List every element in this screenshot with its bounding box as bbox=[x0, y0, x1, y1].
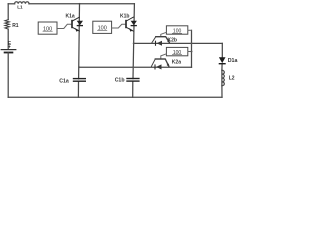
battery E plate short bbox=[5, 52, 13, 54]
junction node cross C1b bbox=[132, 66, 134, 68]
wire K1a column upper bbox=[78, 4, 81, 79]
diode D1a bbox=[219, 57, 226, 63]
svg-text:D1a: D1a bbox=[228, 58, 238, 64]
svg-text:R1: R1 bbox=[12, 23, 19, 29]
wire right edge column bbox=[221, 43, 223, 57]
wire top rail right segment bbox=[29, 3, 134, 5]
transistor K2a bbox=[151, 59, 169, 67]
svg-text:K1a: K1a bbox=[66, 14, 75, 20]
resistor box 100 (K1b base) bbox=[93, 21, 126, 33]
wire K1a column lower bbox=[77, 81, 79, 97]
resistor box 100 (K2a base) bbox=[161, 47, 192, 58]
resistor box 100 (K2b base) bbox=[161, 26, 192, 37]
diode of K1b on rail bbox=[131, 21, 137, 26]
wire right edge below diode bbox=[221, 64, 223, 71]
junction node K1a-K2a bbox=[78, 66, 80, 68]
capacitor C1b bbox=[126, 78, 139, 80]
transistor K2b bbox=[152, 37, 170, 43]
wire left rail upper bbox=[7, 4, 9, 20]
wire rail K2a row bbox=[79, 66, 191, 68]
diode of K2a on rail bbox=[156, 64, 161, 69]
polarity plus of E bbox=[8, 45, 10, 47]
svg-text:K1b: K1b bbox=[120, 14, 129, 20]
junction node top K1a bbox=[79, 3, 81, 5]
svg-text:K2b: K2b bbox=[168, 38, 177, 44]
junction node feed bbox=[191, 42, 193, 44]
wire top rail left segment bbox=[8, 3, 14, 5]
wire K1b column bbox=[133, 4, 134, 79]
resistor box 100 (K1a base) bbox=[38, 22, 71, 34]
svg-text:100: 100 bbox=[173, 50, 182, 56]
wire left rail middle bbox=[7, 29, 9, 49]
wire right edge bottom bbox=[221, 86, 223, 98]
junction node feed K2a box bbox=[191, 51, 193, 53]
diode of K1a on rail bbox=[77, 21, 83, 26]
wire rail K2b row bbox=[134, 42, 223, 44]
diode of K2b on rail bbox=[157, 41, 162, 46]
svg-text:L1: L1 bbox=[17, 4, 23, 9]
wire bottom rail bbox=[8, 96, 222, 98]
svg-text:L2: L2 bbox=[229, 75, 235, 81]
transistor K1a bbox=[72, 17, 80, 31]
svg-text:K2a: K2a bbox=[172, 60, 181, 66]
battery E plate long bbox=[1, 49, 16, 51]
wire K1b column lower bbox=[132, 81, 134, 97]
capacitor C1a bbox=[73, 78, 86, 80]
resistor R1 bbox=[5, 20, 9, 30]
wire left rail lower bbox=[7, 53, 9, 98]
svg-text:C1a: C1a bbox=[59, 78, 69, 84]
wire right feed column bbox=[191, 30, 193, 67]
inductor L2 bbox=[222, 70, 224, 85]
inductor L1 bbox=[15, 2, 29, 4]
junction node K1b-K2b bbox=[133, 42, 135, 44]
svg-text:C1b: C1b bbox=[115, 78, 125, 84]
transistor K1b bbox=[126, 17, 134, 31]
